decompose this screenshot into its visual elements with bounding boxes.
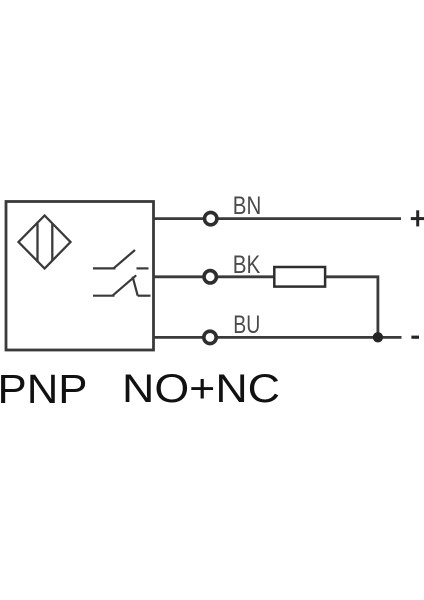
BN terminal circle	[205, 212, 217, 224]
wire from resistor to corner and down	[326, 277, 378, 338]
NO contact switch	[93, 250, 149, 268]
BN wire	[153, 217, 401, 220]
BU wire	[153, 336, 402, 339]
+ terminal	[411, 210, 424, 226]
junction dot	[373, 332, 383, 342]
BK terminal circle	[204, 271, 216, 283]
svg-text:BK: BK	[233, 251, 261, 279]
BK wire	[153, 275, 274, 278]
svg-text:NO+NC: NO+NC	[122, 367, 280, 411]
- terminal	[411, 336, 419, 339]
proximity sensor symbol (diamond with twin bars)	[19, 216, 71, 269]
NC contact switch	[93, 275, 151, 295]
sensor body box	[6, 202, 154, 351]
svg-text:BN: BN	[233, 192, 261, 220]
svg-text:BU: BU	[233, 311, 260, 339]
svg-text:PNP: PNP	[0, 366, 87, 412]
BU terminal circle	[204, 331, 216, 343]
load resistor	[274, 267, 325, 287]
